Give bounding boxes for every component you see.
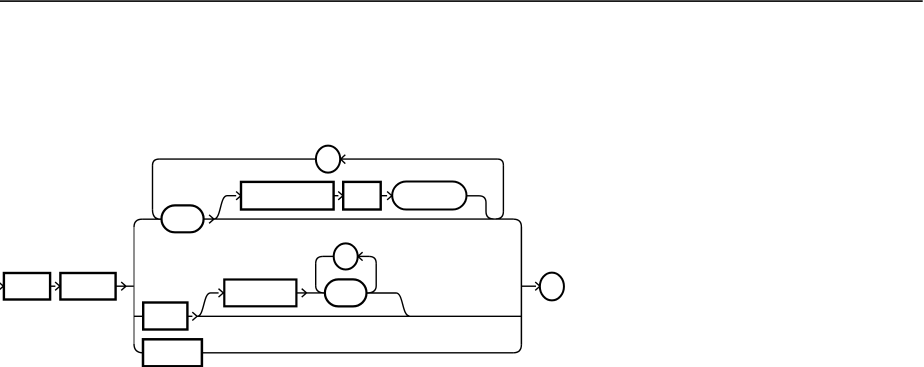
s-curve down to middle skip row xyxy=(396,293,409,316)
loop top-right corner xyxy=(497,159,503,165)
box B1 (first entry box) xyxy=(4,273,50,300)
branch bottom-left corner xyxy=(134,344,143,353)
inner loop top-left corner xyxy=(316,256,323,263)
wire B2 to branch xyxy=(116,285,134,287)
wire B1 to B2 xyxy=(50,285,55,287)
loop-back left merge curve xyxy=(153,210,161,219)
branch top-right corner xyxy=(514,219,522,227)
capsule S2 (upper rounded terminal) xyxy=(392,182,466,210)
arrowhead into B2 xyxy=(55,282,60,290)
inner loop right rise xyxy=(367,263,376,293)
wire B3 to B4 xyxy=(334,195,339,197)
branch bottom-right corner xyxy=(513,345,521,353)
capsule exit down-bend xyxy=(479,196,494,219)
loop top wire right of circle xyxy=(340,158,497,160)
arrowhead into inner circle (pointing left) xyxy=(358,252,363,260)
branch left vertical xyxy=(133,227,135,344)
inner loop circle T3 xyxy=(334,243,358,269)
loop right vertical xyxy=(502,165,504,211)
inner stadium exit wire xyxy=(367,292,397,294)
loop-back top-left corner xyxy=(153,159,160,166)
arrowhead after B5 xyxy=(192,312,197,320)
bottom row wire xyxy=(202,352,513,354)
inner loop top-right corner xyxy=(369,256,376,263)
inner loop left vertical xyxy=(315,263,317,285)
wire B4 to capsule xyxy=(381,195,387,197)
s-curve up to box B6 xyxy=(197,293,219,316)
inner loop left merge curve xyxy=(316,286,325,293)
entry arrowhead xyxy=(0,282,3,290)
arrowhead after stadium S1 xyxy=(209,215,214,223)
box B2 (second entry box) xyxy=(60,273,115,300)
page header rule xyxy=(0,0,923,2)
inner loop top wire right of circle xyxy=(358,255,369,257)
box B4 (small upper box) xyxy=(343,182,381,210)
arrowhead into capsule xyxy=(387,192,392,200)
branch top-left corner xyxy=(134,219,142,227)
wire B6 to inner stadium xyxy=(296,292,324,294)
branch tee to middle row xyxy=(134,315,143,317)
top row wire into stadium xyxy=(142,218,161,220)
arrowhead into loop circle (pointing left) xyxy=(341,155,346,164)
arrowhead into box B3 xyxy=(236,192,241,200)
box B6 (middle upper box) xyxy=(224,280,296,307)
arrowhead into inner stadium xyxy=(302,289,307,297)
inner loop top wire left of circle xyxy=(323,255,334,257)
loop circle T1 xyxy=(316,146,340,173)
loop top wire left of circle xyxy=(159,158,316,160)
arrowhead into box B6 xyxy=(219,289,224,297)
capsule exit wire xyxy=(467,195,480,197)
stadium S1 (top row terminal) xyxy=(162,205,204,232)
wire B5 out xyxy=(187,315,192,317)
box B7 (bottom row box) xyxy=(143,339,202,366)
arrowhead on wire to branch xyxy=(121,282,126,290)
end circle T2 xyxy=(540,273,564,301)
arrowhead into end circle xyxy=(535,282,540,290)
loop right rise from row xyxy=(496,211,504,219)
inner stadium S3 xyxy=(325,279,367,306)
top row skip wire xyxy=(204,218,514,220)
arrowhead into B4 xyxy=(338,192,343,200)
exit wire xyxy=(521,285,536,287)
loop-back left vertical xyxy=(152,166,154,210)
box B5 (middle row box) xyxy=(143,303,187,330)
s-curve up to box B3 xyxy=(214,196,236,219)
box B3 (wide upper box) xyxy=(241,182,334,210)
right merge vertical xyxy=(520,227,522,345)
middle skip row wire xyxy=(197,315,521,317)
